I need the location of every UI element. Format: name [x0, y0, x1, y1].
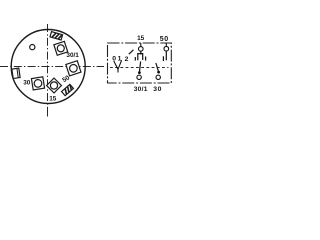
connector housing circle: [11, 30, 85, 104]
svg-text:30/1: 30/1: [66, 52, 79, 59]
coupling dashed bar: [110, 67, 169, 69]
svg-text:50: 50: [160, 36, 169, 43]
svg-text:30/1: 30/1: [134, 86, 148, 93]
terminal 50 (square, circle inside): [66, 61, 81, 76]
svg-text:30: 30: [23, 80, 31, 87]
terminal 30/1 (square, circle inside): [54, 41, 68, 55]
fixed prongs 15: [134, 57, 136, 61]
terminal circle 50: [164, 46, 169, 51]
vertical centerline tail: [47, 113, 49, 117]
bridge contact 15: [138, 54, 143, 61]
svg-text:15: 15: [49, 96, 57, 103]
movable arm 30/1: [139, 62, 140, 73]
keyway bottom-right (hatched): [62, 84, 74, 95]
pointer tick above 2: [129, 50, 134, 54]
terminal 30 (square, circle inside): [31, 77, 44, 90]
movable arm 30: [156, 63, 159, 72]
terminal circle 15: [139, 47, 144, 52]
svg-text:30: 30: [153, 86, 162, 93]
terminal circle 30/1: [137, 75, 141, 79]
horizontal centerline: [0, 66, 104, 68]
switch housing box: [108, 43, 172, 83]
terminal circle 30: [156, 75, 160, 79]
keyway top (hatched): [50, 32, 63, 40]
vertical centerline: [47, 24, 49, 117]
terminal 15 (diamond, circle inside): [47, 78, 62, 93]
hole: [30, 45, 35, 50]
actuator wiper V: [114, 60, 122, 69]
svg-text:2: 2: [125, 56, 129, 63]
svg-text:15: 15: [137, 35, 145, 42]
left slot terminal: [12, 68, 20, 78]
